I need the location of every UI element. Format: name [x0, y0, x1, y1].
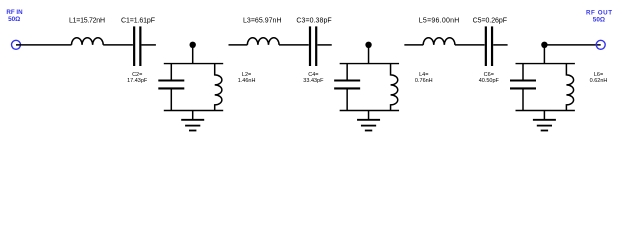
- svg-text:C3=0.38pF: C3=0.38pF: [296, 18, 331, 25]
- ground 1: [181, 111, 204, 131]
- wire: into L3: [229, 44, 248, 46]
- label L6=0.62nH: [590, 72, 608, 84]
- wire: tank 1 bottom rail: [164, 110, 223, 112]
- wire: tank 3 top rail: [516, 63, 575, 65]
- svg-text:33.43pF: 33.43pF: [303, 78, 324, 84]
- inductor L3 (series): [247, 38, 279, 45]
- port P1 label "RF IN 50Ω": [6, 9, 23, 23]
- port P2 RF OUT terminal circle: [596, 40, 605, 49]
- svg-text:L3=65.97nH: L3=65.97nH: [243, 18, 282, 25]
- svg-text:L5=96.00nH: L5=96.00nH: [419, 18, 460, 25]
- svg-text:0.76nH: 0.76nH: [415, 78, 433, 84]
- capacitor C3 (series): [310, 26, 316, 66]
- svg-text:C1=1.61pF: C1=1.61pF: [121, 18, 155, 25]
- wire: tank 2 top rail: [340, 63, 399, 65]
- capacitor C4 (shunt): [334, 64, 360, 111]
- wire: L1 to C1: [103, 44, 133, 46]
- svg-text:40.50pF: 40.50pF: [479, 78, 500, 84]
- label C2=17.43pF: [127, 72, 148, 84]
- wire: C3 to node 2: [317, 44, 331, 46]
- svg-text:L1=15.72nH: L1=15.72nH: [69, 18, 105, 25]
- wire: node 3 stem down to tank 3: [543, 46, 545, 64]
- node 2 junction dot: [365, 42, 371, 48]
- svg-text:1.46nH: 1.46nH: [238, 78, 256, 84]
- wire: node 1 stem down to tank 1: [192, 46, 194, 64]
- wire: node 2 stem down to tank 2: [368, 46, 370, 64]
- inductor L5 (series): [423, 38, 455, 45]
- wire: tank 1 top rail: [164, 63, 223, 65]
- node 3 junction dot: [541, 42, 547, 48]
- inductor L4 (shunt): [391, 64, 398, 111]
- capacitor C5 (series): [486, 26, 492, 66]
- wire: L3 to C3: [279, 44, 309, 46]
- inductor L2 (shunt): [215, 64, 222, 111]
- svg-text:50Ω: 50Ω: [8, 16, 20, 23]
- wire: C5 to node 3: [493, 44, 507, 46]
- capacitor C6 (shunt): [510, 64, 536, 111]
- svg-text:50Ω: 50Ω: [593, 17, 605, 24]
- wire: tank 2 bottom rail: [340, 110, 399, 112]
- label L4=0.76nH: [415, 72, 433, 84]
- capacitor C2 (shunt): [158, 64, 184, 111]
- wire: L5 to C5: [455, 44, 485, 46]
- wire: into L5: [404, 44, 423, 46]
- inductor L6 (shunt): [566, 64, 573, 111]
- inductor L1 (series): [72, 38, 104, 45]
- node 1 junction dot: [190, 42, 196, 48]
- ground 3: [533, 111, 556, 131]
- label C6=40.50pF: [479, 72, 500, 84]
- wire: port P1 to L1: [16, 44, 72, 46]
- wire: node 3 to port P2: [547, 44, 601, 46]
- port P2 label "RF OUT 50Ω": [586, 9, 612, 23]
- label L2=1.46nH: [238, 72, 256, 84]
- svg-text:0.62nH: 0.62nH: [590, 78, 608, 84]
- wire: C1 to node 1: [142, 44, 156, 46]
- capacitor C1 (series): [134, 26, 140, 66]
- label C4=33.43pF: [303, 72, 324, 84]
- svg-text:17.43pF: 17.43pF: [127, 78, 148, 84]
- svg-text:C5=0.26pF: C5=0.26pF: [473, 18, 507, 25]
- port P1 RF IN terminal circle: [12, 40, 21, 49]
- svg-text:RF OUT: RF OUT: [586, 9, 612, 16]
- ground 2: [357, 111, 380, 131]
- wire: tank 3 bottom rail: [516, 110, 575, 112]
